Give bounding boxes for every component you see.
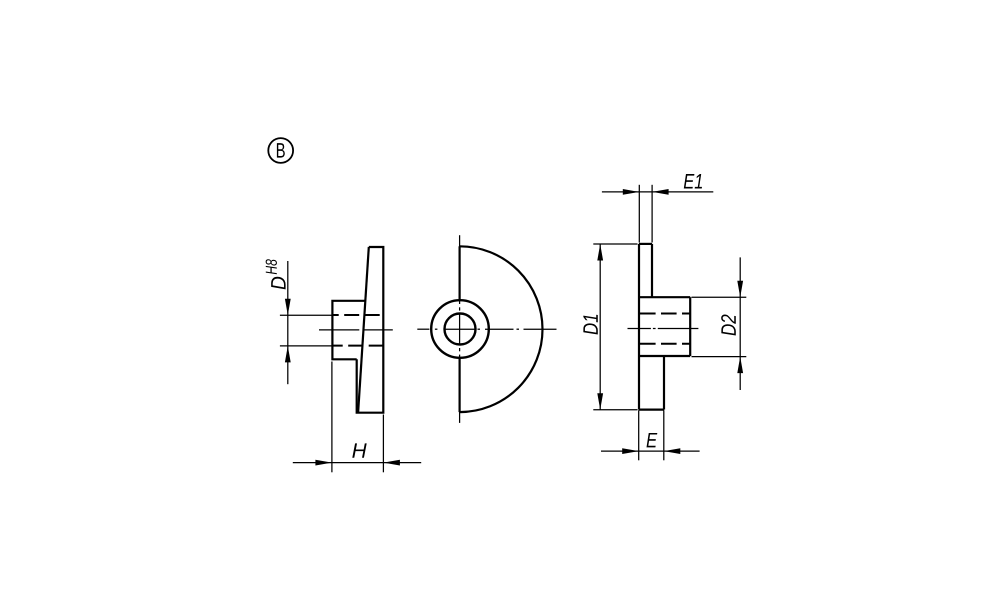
dimension E label xyxy=(647,433,658,447)
left view wing slanted edge xyxy=(358,247,369,413)
dimension D1 label xyxy=(583,315,597,335)
dimension D H8 extension lines xyxy=(280,315,333,346)
dimension D H8 label xyxy=(271,277,285,290)
left view hidden hole line top xyxy=(333,314,384,316)
dimension E1 extension lines xyxy=(639,185,652,243)
left view wing outline xyxy=(357,247,384,413)
right view wing and hub outline xyxy=(639,244,690,410)
dimension D2 label xyxy=(721,314,736,335)
front view hub circle xyxy=(431,300,489,358)
front view hole circle xyxy=(445,314,476,345)
front view vertical center line xyxy=(459,235,461,423)
left view center line xyxy=(319,329,393,331)
right view hidden hole line bottom xyxy=(640,343,690,345)
dimension D2 dimension line with arrows xyxy=(739,257,741,390)
right view hidden hole line top xyxy=(640,313,690,315)
dimension D2 extension lines xyxy=(692,297,747,356)
front view horizontal center line xyxy=(417,328,556,330)
left view hidden hole line bottom xyxy=(333,345,384,347)
right view center line xyxy=(628,328,699,330)
dimension H label xyxy=(352,443,366,457)
front view semicircular arc xyxy=(460,246,543,412)
dimension D1 extension lines xyxy=(593,244,637,410)
dimension E1 label xyxy=(684,174,702,188)
dimension D H8 dimension line with arrows xyxy=(287,261,289,384)
dimension H dimension line with arrows xyxy=(293,462,421,464)
dimension E extension lines xyxy=(639,410,664,460)
dimension E dimension line with arrows xyxy=(601,450,700,452)
left view hub outline xyxy=(332,301,365,360)
front view flat edge xyxy=(459,246,461,412)
dimension D1 dimension line with arrows xyxy=(599,244,601,410)
view label B circle xyxy=(268,138,293,163)
dimension H extension lines xyxy=(332,362,384,473)
dimension E1 dimension line with arrows xyxy=(602,191,713,193)
